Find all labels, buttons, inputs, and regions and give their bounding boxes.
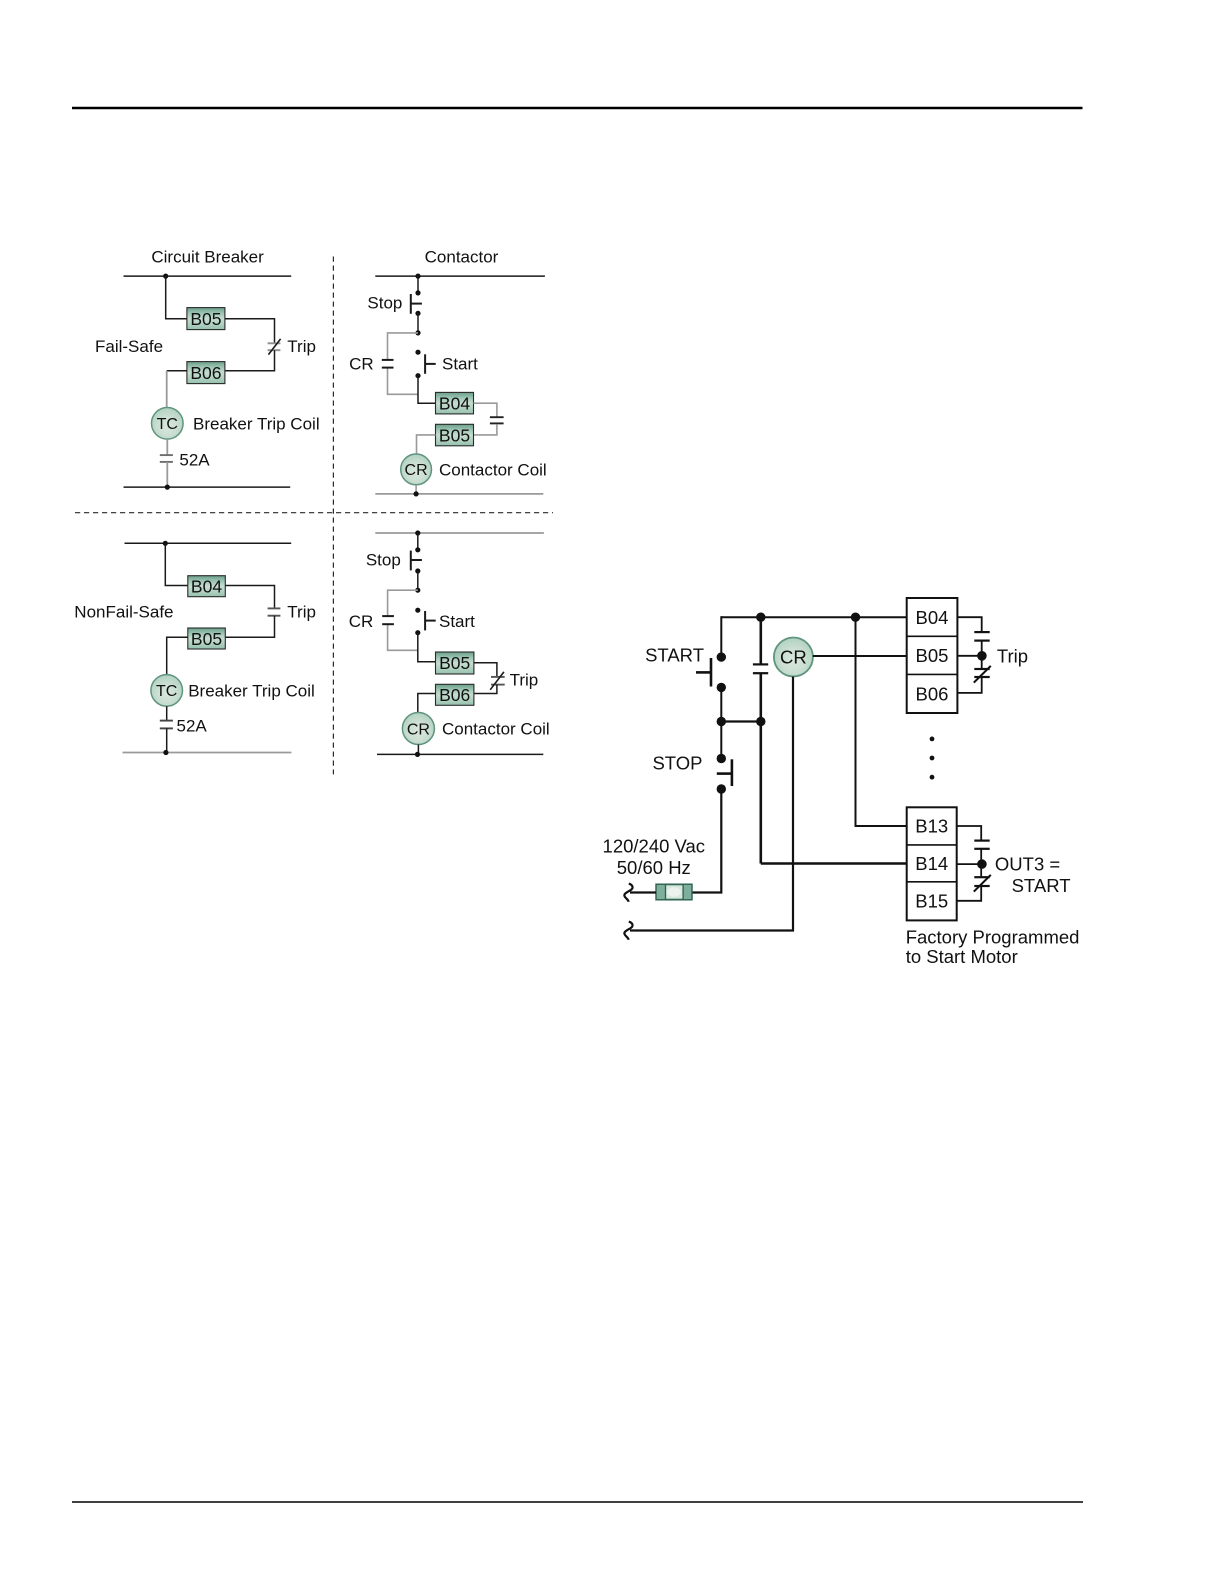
- wire Start to B04: [418, 376, 436, 404]
- svg-text:B05: B05: [439, 653, 470, 673]
- node junction bottom rail Q3: [163, 750, 168, 755]
- line break squiggle L2: [624, 922, 632, 940]
- contact CR NO latch (Q2): [382, 360, 394, 368]
- svg-text:OUT3 =: OUT3 =: [995, 854, 1060, 875]
- wire contact to Trip node: [981, 641, 983, 669]
- node junction bottom rail Q1: [165, 485, 170, 490]
- label Stop (Q2): [367, 294, 402, 313]
- page bottom rule: [72, 1501, 1083, 1503]
- svg-text:Stop: Stop: [366, 551, 401, 570]
- wire STOP down to fuse line: [692, 789, 721, 893]
- pushbutton Start NO (Q4): [415, 608, 436, 636]
- relay input B05 (Q4): [436, 652, 474, 674]
- node ellipsis dots between blocks: [930, 737, 935, 780]
- label 50/60 Hz: [617, 857, 691, 878]
- wire bottom rail Q4: [377, 753, 543, 755]
- label Breaker Trip Coil (Q1): [193, 414, 320, 433]
- label CR (Q2): [349, 355, 374, 374]
- wire top rail Q1: [124, 275, 292, 277]
- wire top rail Q2: [375, 275, 545, 277]
- svg-text:Factory Programmed: Factory Programmed: [906, 926, 1080, 947]
- label Contactor title: [425, 248, 499, 267]
- pushbutton Stop NC (Q2): [411, 290, 422, 316]
- svg-text:Trip: Trip: [287, 603, 316, 622]
- label Breaker Trip Coil (Q3): [188, 682, 315, 701]
- node junction top rail Q2: [415, 274, 420, 279]
- fuse F1: [656, 884, 692, 900]
- wire CR latch branch lower (big): [759, 673, 762, 721]
- svg-text:B04: B04: [191, 577, 222, 597]
- wire rail to B05: [166, 276, 187, 319]
- svg-text:B05: B05: [191, 629, 222, 649]
- svg-text:Trip: Trip: [287, 337, 316, 356]
- contact Trip NO (Q3): [268, 608, 281, 615]
- wire B04 to sense contact: [474, 403, 497, 417]
- wire B05 to trip contact Q4: [474, 663, 497, 677]
- svg-text:STOP: STOP: [652, 753, 702, 774]
- wire B04 to trip contact: [225, 586, 274, 609]
- svg-text:B05: B05: [190, 309, 221, 329]
- svg-text:TC: TC: [156, 683, 177, 700]
- node junction B13 branch on rail: [851, 613, 860, 622]
- svg-text:52A: 52A: [177, 717, 208, 736]
- contact NC B14-B15 with slash (big): [974, 875, 991, 892]
- coil CR contactor coil (Q4): [402, 713, 434, 745]
- dashed divider horizontal: [75, 512, 553, 514]
- wire bottom rail Q1: [124, 486, 291, 488]
- wire B06 to CR coil Q4: [418, 694, 436, 713]
- svg-text:CR: CR: [780, 647, 807, 668]
- wire CR coil bottom to return line: [630, 677, 793, 931]
- relay output B05 (Q3): [188, 628, 226, 649]
- wire Stop to junction Q4: [417, 571, 419, 590]
- wire rail corner down to START: [720, 616, 722, 653]
- svg-text:Breaker Trip Coil: Breaker Trip Coil: [193, 414, 320, 433]
- contact 52A (Q3): [160, 721, 173, 729]
- contact CR NO latch (Q4): [382, 616, 394, 624]
- label 52A (Q3): [177, 717, 208, 736]
- wire B04 to trip contact (big): [957, 617, 981, 632]
- wire horizontal to B14: [761, 862, 907, 865]
- svg-text:B05: B05: [916, 645, 949, 666]
- svg-text:B05: B05: [439, 425, 470, 445]
- wire trip contact to B06 Q4: [474, 685, 497, 694]
- label Contactor Coil (Q4): [442, 720, 550, 739]
- line break squiggle L1: [624, 884, 632, 902]
- label Start (Q4): [439, 612, 475, 631]
- label 52A (Q1): [179, 451, 210, 470]
- wire CR coil to bottom rail Q4: [417, 745, 419, 755]
- wire rail to B04: [165, 543, 188, 585]
- wire tie junction horizontal: [721, 720, 761, 722]
- svg-text:B04: B04: [916, 607, 949, 628]
- node CR branch junction (Q2): [415, 330, 420, 335]
- node OUT3 junction: [977, 859, 987, 869]
- svg-text:TC: TC: [157, 416, 178, 433]
- label Fail-Safe: [95, 337, 163, 356]
- dashed divider vertical: [332, 257, 334, 775]
- svg-text:Contactor Coil: Contactor Coil: [442, 720, 550, 739]
- node junction top rail Q3: [163, 541, 168, 546]
- relay output B05 (Q1): [187, 308, 225, 330]
- svg-text:CR: CR: [405, 462, 428, 479]
- relay output B04 (Q3): [188, 576, 226, 597]
- coil TC breaker trip coil (Q1): [152, 408, 184, 440]
- terminal block B04 B05 B06: [907, 598, 958, 713]
- contact Trip NC (Q1): [268, 339, 281, 355]
- label Trip (Q4): [510, 671, 539, 690]
- svg-text:CR: CR: [407, 721, 430, 738]
- wire CR latch branch (Q2): [388, 333, 419, 394]
- label START: [645, 644, 704, 665]
- svg-text:Breaker Trip Coil: Breaker Trip Coil: [188, 682, 315, 701]
- node junction top rail Q1: [163, 274, 168, 279]
- wire Start to B05 Q4: [418, 633, 436, 662]
- contact NO B04-B05 (big): [974, 632, 989, 641]
- wire latch junction down to B14 level: [759, 722, 762, 864]
- node junction latch branch on rail: [756, 613, 765, 622]
- relay input B04 (Q2): [436, 392, 474, 414]
- pushbutton Start NO (Q2): [415, 350, 435, 379]
- svg-text:to Start Motor: to Start Motor: [906, 946, 1018, 967]
- node CR branch junction (Q4): [415, 588, 420, 593]
- svg-text:B06: B06: [439, 685, 470, 705]
- svg-text:B06: B06: [190, 363, 221, 383]
- pushbutton STOP NC: [717, 754, 732, 794]
- wire Stop to junction: [417, 313, 419, 333]
- terminal block B13 B14 B15: [907, 807, 957, 920]
- relay input B06 (Q4): [436, 684, 474, 705]
- wire B05 stub to Trip node: [957, 655, 981, 657]
- contact Trip NC (Q4): [490, 672, 505, 690]
- wire CR latch branch (Q4): [388, 590, 418, 650]
- wire trip contact to B05: [225, 616, 274, 638]
- svg-text:Trip: Trip: [510, 671, 539, 690]
- svg-text:Circuit Breaker: Circuit Breaker: [151, 248, 264, 267]
- wire START to tie junction: [720, 687, 722, 721]
- wire CR coil to bottom rail: [415, 485, 417, 494]
- contact NO B13-B14 (big): [974, 841, 989, 849]
- svg-text:120/240 Vac: 120/240 Vac: [603, 836, 706, 857]
- contact CR NO latch (big): [753, 664, 768, 673]
- svg-text:Contactor: Contactor: [425, 248, 499, 267]
- label Trip (Q1): [287, 337, 316, 356]
- wire NC contact to B06: [957, 677, 981, 693]
- wire CR latch branch upper (big): [759, 617, 762, 664]
- svg-text:B04: B04: [439, 393, 470, 413]
- wire contact to OUT3 node: [980, 849, 982, 877]
- svg-text:B13: B13: [915, 816, 948, 837]
- svg-text:52A: 52A: [179, 451, 210, 470]
- pushbutton Stop NC (Q4): [411, 547, 422, 573]
- wire TC to 52A contact: [166, 706, 168, 720]
- contact NO sense (Q2): [490, 417, 504, 423]
- label Contactor Coil (Q2): [439, 461, 547, 480]
- node tie right: [756, 717, 765, 726]
- wire 52A to bottom rail: [166, 728, 168, 752]
- wire B14 stub to OUT3 node: [957, 863, 982, 865]
- wire rail to Stop contact Q4: [417, 533, 419, 550]
- svg-text:Start: Start: [439, 612, 475, 631]
- wire B05 to CR coil: [417, 435, 436, 454]
- svg-text:B15: B15: [915, 891, 948, 912]
- wire top rail Q3: [125, 542, 292, 544]
- relay output B06 (Q1): [187, 362, 225, 384]
- label CR (Q4): [349, 612, 374, 631]
- wire NC contact to B15: [957, 886, 982, 901]
- label OUT3 =: [995, 854, 1060, 875]
- wire rail junction down to B13: [856, 617, 907, 826]
- wire TC to 52A contact: [166, 439, 168, 455]
- wire 52A to bottom rail: [166, 462, 168, 487]
- wire CR coil right to B05: [813, 655, 907, 657]
- contact NC B05-B06 with slash (big): [974, 666, 991, 683]
- node junction bottom rail Q2: [414, 491, 419, 496]
- svg-text:Fail-Safe: Fail-Safe: [95, 337, 163, 356]
- wire top rail Q4: [375, 532, 544, 534]
- node Trip junction: [977, 651, 987, 661]
- wire B13 to OUT3 contact: [957, 826, 982, 841]
- label Factory Programmed: [906, 926, 1080, 947]
- label to Start Motor: [906, 946, 1018, 967]
- node junction top rail Q4: [415, 530, 420, 535]
- wire B06 to trip coil: [167, 371, 187, 408]
- pushbutton START NO: [696, 652, 726, 692]
- label Start (Q2): [442, 355, 478, 374]
- label STOP: [652, 753, 702, 774]
- wire top rail (big): [721, 616, 906, 618]
- wire trip contact to B06: [225, 350, 275, 371]
- svg-text:CR: CR: [349, 612, 374, 631]
- svg-text:Stop: Stop: [367, 294, 402, 313]
- relay input B05 (Q2): [436, 424, 474, 446]
- wire bottom rail Q3: [123, 752, 292, 754]
- label START output: [1012, 875, 1071, 896]
- svg-text:CR: CR: [349, 355, 374, 374]
- svg-text:Contactor Coil: Contactor Coil: [439, 461, 547, 480]
- label Trip (Q3): [287, 603, 316, 622]
- svg-text:Trip: Trip: [997, 645, 1028, 666]
- node junction bottom rail Q4: [415, 752, 420, 757]
- svg-text:NonFail-Safe: NonFail-Safe: [74, 603, 173, 622]
- page top rule: [72, 107, 1083, 109]
- svg-text:Start: Start: [442, 355, 478, 374]
- svg-text:START: START: [645, 644, 704, 665]
- wire rail to Stop contact: [417, 276, 419, 293]
- svg-text:B06: B06: [916, 683, 949, 704]
- node tie left: [717, 717, 726, 726]
- label Stop (Q4): [366, 551, 401, 570]
- coil TC breaker trip coil (Q3): [151, 675, 183, 707]
- svg-text:50/60 Hz: 50/60 Hz: [617, 857, 691, 878]
- coil CR (big): [774, 638, 813, 677]
- svg-text:START: START: [1012, 875, 1071, 896]
- wire tie to STOP: [720, 722, 722, 755]
- wire sense contact to B05: [474, 424, 497, 435]
- label Circuit Breaker title: [151, 248, 264, 267]
- coil CR contactor coil (Q2): [401, 454, 432, 485]
- svg-text:B14: B14: [915, 853, 948, 874]
- contact 52A (Q1): [160, 455, 173, 462]
- label Trip (big): [997, 645, 1028, 666]
- wire B05 to trip coil: [167, 637, 188, 674]
- wire B05 to trip contact: [225, 319, 275, 344]
- label NonFail-Safe: [74, 603, 173, 622]
- wire fuse to line break: [630, 891, 656, 893]
- wire bottom rail Q2: [375, 493, 543, 495]
- label 120/240 Vac: [603, 836, 706, 857]
